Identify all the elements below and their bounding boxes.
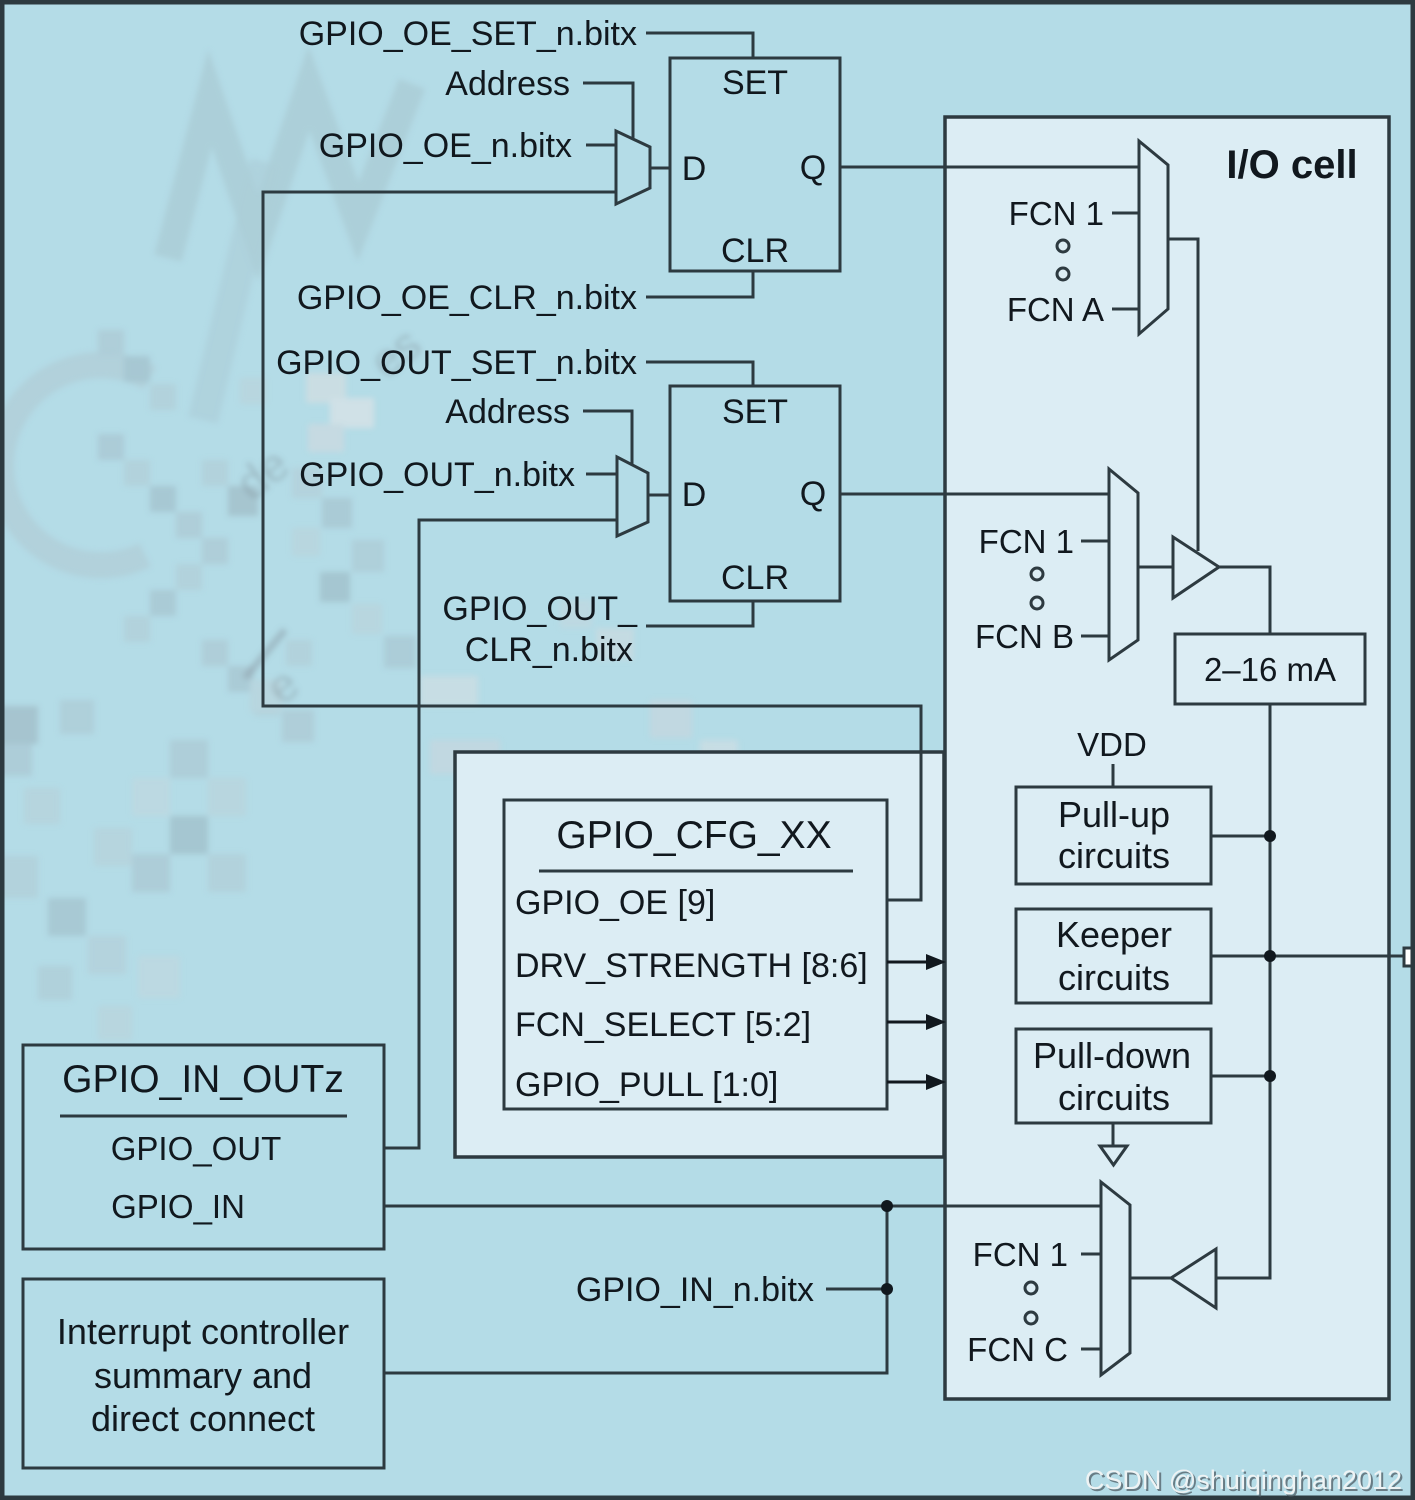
svg-text:FCN 1: FCN 1	[1009, 195, 1104, 232]
svg-text:GPIO_OUT_SET_n.bitx: GPIO_OUT_SET_n.bitx	[276, 344, 637, 382]
svg-text:DRV_STRENGTH [8:6]: DRV_STRENGTH [8:6]	[515, 947, 868, 985]
wire mux M1 out to FF1 D	[650, 167, 670, 170]
wire GPIO_OUT_n to mux M2	[586, 473, 617, 476]
svg-text:Interrupt controller: Interrupt controller	[57, 1311, 349, 1352]
wire FCN B stub to mux U2	[1081, 635, 1109, 638]
svg-text:I/O cell: I/O cell	[1226, 143, 1357, 187]
input buffer	[1171, 1249, 1216, 1308]
wire GPIO_OUT feedback from GPIO_IN_OUTz to mux M2	[384, 520, 617, 1148]
register block box	[455, 752, 944, 1157]
wire mux M2 out to FF2 D	[648, 494, 670, 497]
svg-text:CLR_n.bitx: CLR_n.bitx	[465, 631, 633, 669]
svg-text:Address: Address	[445, 65, 570, 103]
svg-text:FCN C: FCN C	[967, 1331, 1068, 1368]
svg-text:D: D	[682, 150, 707, 188]
svg-text:GPIO_OE [9]: GPIO_OE [9]	[515, 884, 715, 922]
wire FCN 1 stub to mux U2	[1081, 540, 1109, 543]
svg-text:GPIO_OE_n.bitx: GPIO_OE_n.bitx	[319, 127, 572, 165]
svg-text:2–16 mA: 2–16 mA	[1204, 651, 1336, 688]
mux U2 (FCN select B)	[1109, 469, 1138, 660]
junction node keeper	[1264, 950, 1276, 962]
wire FCN A stub to mux U1	[1112, 308, 1139, 311]
wire pull-up circuits to net	[1211, 835, 1270, 838]
wire Address to mux M1 select	[583, 83, 633, 142]
keeper circuits box	[1016, 909, 1211, 1003]
wire mux U1 out to buffer enable	[1168, 239, 1198, 551]
wire FCN 1 stub to mux U1	[1112, 212, 1139, 215]
junction node pull-down	[1264, 1070, 1276, 1082]
arrow FCN_SELECT	[887, 1021, 928, 1024]
svg-text:Keeper: Keeper	[1056, 914, 1172, 955]
wire GPIO_OE_SET to FF1 SET	[646, 33, 753, 57]
svg-text:GPIO_OE_SET_n.bitx: GPIO_OE_SET_n.bitx	[299, 15, 637, 53]
wire GPIO_OUT_SET to FF2 SET	[646, 362, 753, 386]
svg-text:GPIO_PULL [1:0]: GPIO_PULL [1:0]	[515, 1066, 778, 1104]
wire input buffer to mux U3	[1130, 1277, 1171, 1280]
svg-text:FCN_SELECT [5:2]: FCN_SELECT [5:2]	[515, 1006, 811, 1044]
output buffer (tri-state)	[1173, 537, 1219, 598]
svg-text:GPIO_OUT_: GPIO_OUT_	[442, 590, 638, 628]
svg-text:direct connect: direct connect	[91, 1398, 315, 1439]
flip-flop FF2	[670, 386, 840, 601]
ground arrow under pull-down	[1100, 1146, 1127, 1165]
svg-text:GPIO_IN_n.bitx: GPIO_IN_n.bitx	[576, 1271, 814, 1309]
mux U3 (FCN select C, input)	[1101, 1182, 1130, 1375]
wire GPIO_OE feedback from GPIO_CFG to mux M1	[263, 192, 921, 900]
wire FCN C stub to mux U3	[1081, 1348, 1101, 1351]
pull-up circuits box	[1016, 787, 1211, 884]
svg-text:Pull-down: Pull-down	[1033, 1035, 1191, 1076]
GPIO_CFG_XX register box	[504, 800, 887, 1109]
pad	[1404, 948, 1415, 966]
arrow DRV_STRENGTH	[887, 954, 946, 1090]
svg-text:GPIO_OUT: GPIO_OUT	[111, 1130, 282, 1167]
wire FF2 Q to mux U2	[840, 493, 1109, 496]
svg-text:Address: Address	[445, 393, 570, 431]
svg-text:circuits: circuits	[1058, 1077, 1170, 1118]
svg-text:FCN 1: FCN 1	[973, 1236, 1068, 1273]
junction node GPIO_IN	[881, 1200, 893, 1212]
svg-text:circuits: circuits	[1058, 835, 1170, 876]
pull-down circuits box	[1016, 1029, 1211, 1123]
mux M1	[616, 131, 650, 204]
svg-text:CLR: CLR	[721, 559, 789, 597]
wire output buffer to 2-16mA box	[1219, 567, 1270, 633]
svg-text:GPIO_IN: GPIO_IN	[111, 1188, 245, 1225]
svg-text:CLR: CLR	[721, 232, 789, 270]
svg-text:summary and: summary and	[94, 1355, 312, 1396]
dots U2	[1031, 568, 1043, 580]
svg-text:Q: Q	[800, 475, 826, 513]
svg-text:Q: Q	[800, 149, 826, 187]
wire mux U2 out to output buffer	[1138, 566, 1173, 569]
wire Address to mux M2 select	[583, 411, 632, 470]
wire pull-down circuits to net	[1211, 1075, 1270, 1078]
svg-text:FCN A: FCN A	[1007, 291, 1104, 328]
junction node pull-up	[1264, 830, 1276, 842]
svg-text:SET: SET	[722, 393, 788, 431]
dots U3	[1025, 1282, 1037, 1294]
wire GPIO_OUT_CLR to FF2 CLR	[646, 601, 753, 626]
wire FCN 1 stub to mux U3	[1081, 1253, 1101, 1256]
arrow GPIO_PULL	[887, 1081, 928, 1084]
2-16 mA box	[1175, 634, 1365, 704]
I/O cell box	[945, 117, 1389, 1399]
interrupt controller box	[23, 1279, 384, 1468]
svg-text:GPIO_CFG_XX: GPIO_CFG_XX	[556, 814, 831, 857]
wire pull-down to ground arrow	[1112, 1122, 1115, 1146]
svg-text:GPIO_IN_OUTz: GPIO_IN_OUTz	[62, 1058, 344, 1101]
svg-text:GPIO_OE_CLR_n.bitx: GPIO_OE_CLR_n.bitx	[297, 279, 637, 317]
svg-text:GPIO_OUT_n.bitx: GPIO_OUT_n.bitx	[299, 456, 575, 494]
wire keeper circuits to pad	[1211, 955, 1406, 958]
svg-text:FCN 1: FCN 1	[979, 523, 1074, 560]
mux U1 (FCN select A)	[1139, 141, 1168, 334]
wire VDD stub	[1112, 764, 1115, 786]
wire GPIO_OE_n to mux M1	[586, 144, 616, 147]
wire interrupt controller to GPIO_IN node	[384, 1206, 887, 1373]
svg-text:CSDN @shuiqinghan2012: CSDN @shuiqinghan2012	[1085, 1465, 1402, 1495]
svg-text:FCN B: FCN B	[975, 618, 1074, 655]
junction node GPIO_IN_n	[881, 1283, 893, 1295]
svg-text:circuits: circuits	[1058, 957, 1170, 998]
wires group	[263, 33, 1406, 1373]
wire FF1 Q to mux U1	[840, 166, 1139, 169]
dots U1	[1057, 240, 1069, 252]
wire GPIO_IN_n label	[826, 1288, 887, 1291]
wire GPIO_IN line	[384, 1205, 1101, 1208]
svg-text:D: D	[682, 476, 707, 514]
wire 2-16mA box to input buffer	[1216, 704, 1270, 1278]
flip-flop FF1	[670, 58, 840, 271]
svg-text:Pull-up: Pull-up	[1058, 794, 1170, 835]
wire GPIO_OE_CLR to FF1 CLR	[646, 272, 753, 297]
mux M2	[617, 457, 648, 536]
svg-text:VDD: VDD	[1077, 726, 1147, 763]
GPIO_IN_OUTz box	[23, 1045, 384, 1249]
svg-text:SET: SET	[722, 64, 788, 102]
